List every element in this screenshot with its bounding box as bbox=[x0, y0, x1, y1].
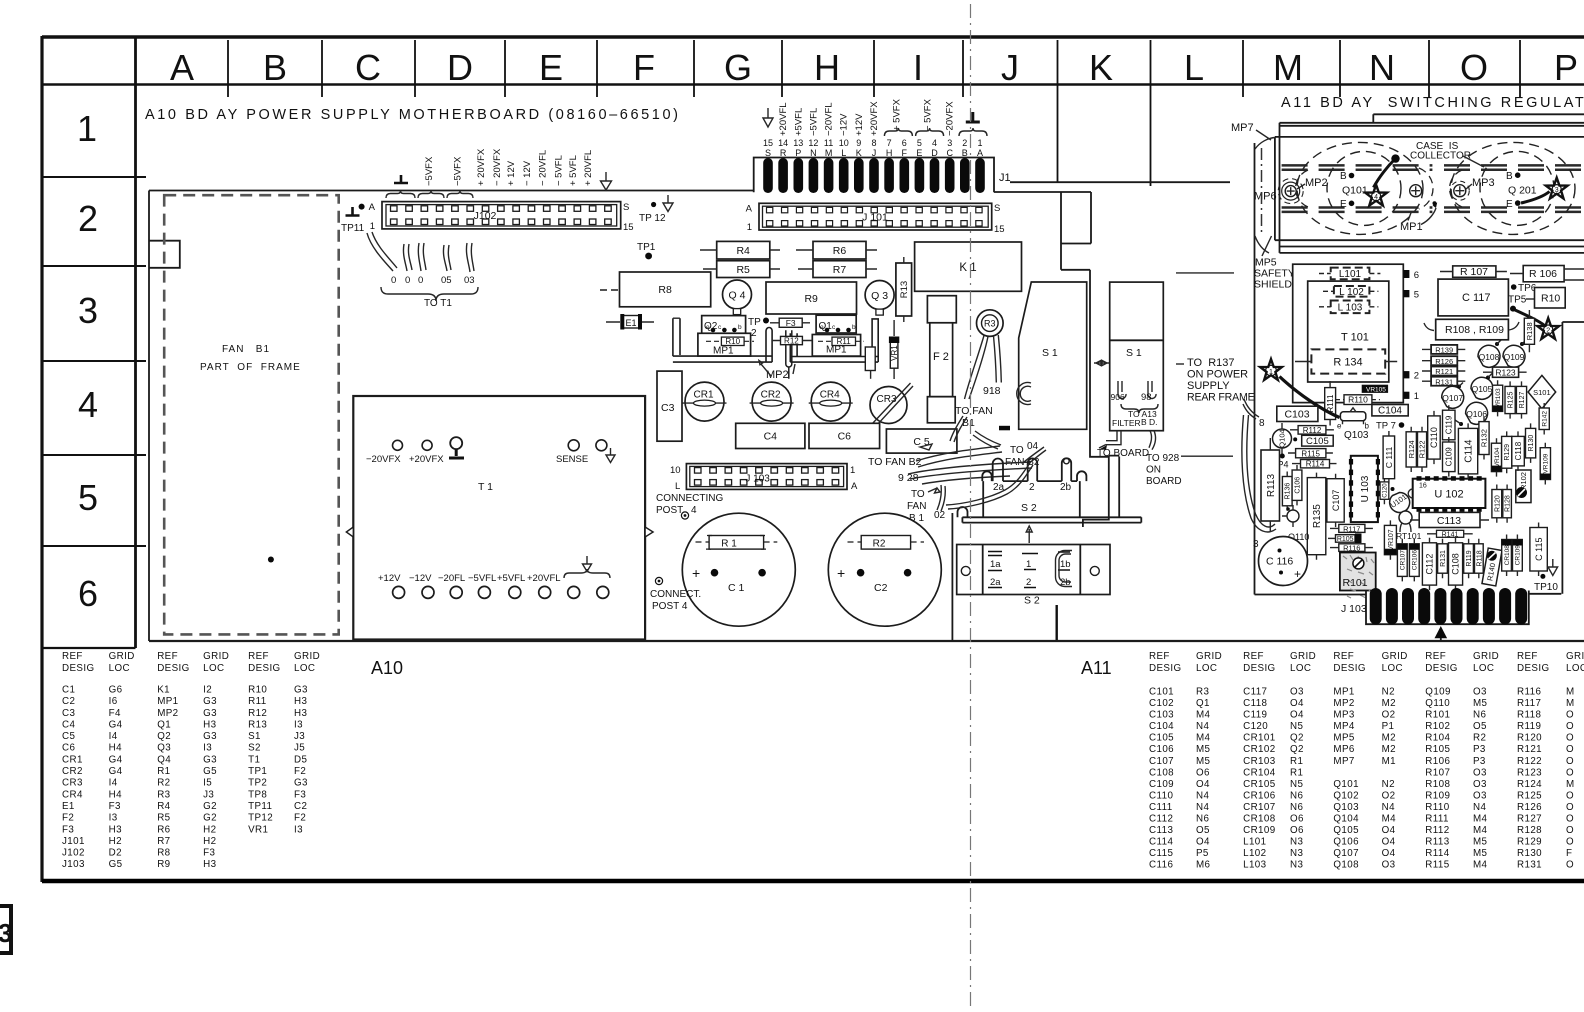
svg-text:GRID: GRID bbox=[203, 651, 229, 662]
label CONNECT POST 4 bbox=[650, 577, 701, 612]
svg-text:MP2: MP2 bbox=[1333, 698, 1354, 709]
svg-text:04: 04 bbox=[1027, 441, 1039, 452]
svg-text:O3: O3 bbox=[1473, 779, 1487, 790]
resistor R132 bbox=[1479, 417, 1489, 460]
svg-text:N4: N4 bbox=[1196, 802, 1209, 813]
R6 leads bbox=[796, 249, 877, 251]
connector J103 (A10) bbox=[670, 464, 858, 492]
wires: J102 to T1 traces bbox=[367, 232, 478, 309]
svg-text:e: e bbox=[706, 324, 710, 331]
svg-text:R123: R123 bbox=[1495, 368, 1516, 378]
svg-text:MP3: MP3 bbox=[1472, 177, 1495, 189]
svg-text:N3: N3 bbox=[1290, 848, 1303, 859]
svg-text:TP: TP bbox=[748, 317, 761, 328]
svg-text:J: J bbox=[872, 148, 877, 158]
resistor R114 bbox=[1292, 460, 1337, 469]
connector J101 bbox=[746, 203, 1005, 235]
resistor R135 bbox=[1307, 473, 1326, 560]
svg-text:Q107: Q107 bbox=[1333, 848, 1359, 859]
svg-text:R122: R122 bbox=[1418, 440, 1427, 458]
svg-text:R111: R111 bbox=[1326, 394, 1335, 412]
svg-text:O: O bbox=[1566, 837, 1574, 848]
svg-text:R9: R9 bbox=[804, 293, 818, 305]
svg-text:M5: M5 bbox=[1473, 848, 1488, 859]
svg-text:O3: O3 bbox=[1382, 860, 1396, 871]
svg-text:C104: C104 bbox=[1149, 721, 1174, 732]
inductor L101 bbox=[1319, 268, 1380, 280]
svg-text:2: 2 bbox=[1029, 482, 1035, 493]
svg-text:TP11: TP11 bbox=[248, 801, 272, 812]
svg-text:+20VFX: +20VFX bbox=[409, 454, 444, 465]
svg-text:R108 , R109: R108 , R109 bbox=[1445, 324, 1504, 336]
svg-text:Q105: Q105 bbox=[1333, 825, 1359, 836]
svg-text:Q 4: Q 4 bbox=[729, 290, 746, 302]
thermistor RT101 bbox=[1396, 511, 1422, 541]
resistor R120 bbox=[1492, 485, 1502, 523]
svg-text:A: A bbox=[170, 47, 194, 88]
svg-text:C104: C104 bbox=[1378, 406, 1402, 417]
resistor R4 bbox=[717, 241, 770, 259]
svg-text:R112: R112 bbox=[1303, 426, 1322, 435]
resistor R102 with screw bbox=[1516, 470, 1531, 503]
svg-text:14: 14 bbox=[778, 138, 788, 148]
svg-text:11: 11 bbox=[824, 138, 833, 148]
svg-text:LOC: LOC bbox=[1290, 663, 1311, 674]
svg-text:R128: R128 bbox=[1517, 825, 1542, 836]
wire pointer lines bbox=[1176, 273, 1234, 456]
svg-text:Q4: Q4 bbox=[157, 754, 171, 765]
capacitor C115 bbox=[1530, 523, 1547, 577]
svg-text:CONNECTING: CONNECTING bbox=[656, 493, 723, 504]
svg-text:S 2: S 2 bbox=[1021, 502, 1037, 514]
svg-text:H3: H3 bbox=[294, 696, 307, 707]
grid header letters bbox=[170, 47, 1578, 88]
test point TP11 bbox=[341, 204, 365, 234]
svg-text:02: 02 bbox=[934, 510, 946, 521]
svg-text:K 1: K 1 bbox=[959, 262, 976, 274]
svg-text:−20FL: −20FL bbox=[438, 573, 465, 584]
svg-text:S: S bbox=[765, 148, 771, 158]
svg-text:R3: R3 bbox=[984, 319, 996, 329]
svg-text:T 101: T 101 bbox=[1341, 332, 1369, 344]
svg-text:GRID: GRID bbox=[1566, 651, 1584, 662]
svg-text:I3: I3 bbox=[203, 743, 212, 754]
svg-text:5: 5 bbox=[78, 477, 98, 518]
svg-text:1b: 1b bbox=[1060, 559, 1071, 570]
svg-text:O: O bbox=[1566, 721, 1574, 732]
A11 board bottom edge bbox=[1255, 593, 1562, 596]
svg-text:+: + bbox=[692, 565, 700, 581]
capacitor C116 bbox=[1259, 537, 1308, 586]
svg-text:C120: C120 bbox=[1383, 483, 1389, 498]
svg-text:MP1: MP1 bbox=[157, 696, 178, 707]
svg-text:N4: N4 bbox=[1473, 802, 1486, 813]
svg-text:−20VFX: −20VFX bbox=[945, 101, 956, 136]
diode CR2 bbox=[750, 382, 794, 421]
svg-text:C 115: C 115 bbox=[1534, 538, 1544, 561]
svg-text:MP4: MP4 bbox=[1333, 721, 1354, 732]
svg-text:R2: R2 bbox=[873, 538, 886, 549]
svg-text:Q101: Q101 bbox=[1333, 779, 1359, 790]
svg-text:Q104: Q104 bbox=[1333, 814, 1359, 825]
svg-text:C6: C6 bbox=[62, 743, 75, 754]
transistor Q109 bbox=[1503, 345, 1525, 367]
svg-text:1: 1 bbox=[977, 138, 982, 148]
svg-text:Q101: Q101 bbox=[1342, 185, 1368, 197]
svg-text:M: M bbox=[825, 148, 833, 158]
transistor Q110 bbox=[1282, 505, 1309, 542]
svg-text:G2: G2 bbox=[203, 801, 217, 812]
svg-text:H: H bbox=[886, 148, 893, 158]
svg-text:F3: F3 bbox=[294, 789, 306, 800]
svg-text:CR2: CR2 bbox=[761, 390, 781, 401]
svg-text:N4: N4 bbox=[1382, 802, 1395, 813]
svg-text:1: 1 bbox=[747, 222, 752, 233]
varistor VR107 bbox=[1384, 520, 1396, 559]
transistor Q201 (TO-3 dashed outline) bbox=[1450, 142, 1575, 234]
svg-text:C114: C114 bbox=[1149, 837, 1173, 848]
svg-text:CR109: CR109 bbox=[1243, 825, 1276, 836]
svg-text:0: 0 bbox=[391, 275, 396, 286]
svg-text:A: A bbox=[746, 204, 753, 215]
svg-text:R6: R6 bbox=[157, 824, 170, 835]
svg-text:REF: REF bbox=[1243, 651, 1264, 662]
relay K1 bbox=[915, 242, 1022, 291]
switch S101 (diamond) bbox=[1528, 375, 1556, 414]
label 928 bbox=[898, 472, 919, 484]
svg-text:MP6: MP6 bbox=[1254, 191, 1277, 203]
svg-text:R 1: R 1 bbox=[721, 538, 737, 549]
svg-text:C112: C112 bbox=[1149, 814, 1173, 825]
svg-text:K1: K1 bbox=[157, 685, 170, 696]
svg-text:S: S bbox=[623, 202, 629, 213]
svg-text:N6: N6 bbox=[1290, 790, 1303, 801]
svg-text:G3: G3 bbox=[294, 778, 308, 789]
svg-text:O4: O4 bbox=[1382, 837, 1396, 848]
ground symbol at J1 pins 2-1 bbox=[966, 112, 980, 122]
svg-text:+ 20VFL: + 20VFL bbox=[583, 150, 594, 186]
transistor Q4 bbox=[723, 280, 752, 315]
svg-text:M4: M4 bbox=[1473, 860, 1488, 871]
transformer T1 bbox=[346, 396, 653, 640]
svg-text:− 5VFL: − 5VFL bbox=[554, 155, 565, 186]
svg-text:VR1: VR1 bbox=[248, 824, 268, 835]
wires: fan harness curves bbox=[908, 416, 1032, 484]
title A11 board bbox=[1281, 95, 1584, 111]
wire hairpin to label 3 bbox=[1242, 415, 1276, 550]
svg-text:Q108: Q108 bbox=[1333, 860, 1359, 871]
svg-text:GRID: GRID bbox=[294, 651, 320, 662]
transistor Q2 bbox=[702, 316, 746, 334]
capacitor C103 bbox=[1277, 406, 1318, 421]
svg-text:1: 1 bbox=[1269, 367, 1273, 376]
svg-text:R113: R113 bbox=[1425, 837, 1449, 848]
transistor U101 bbox=[1389, 487, 1410, 512]
wire: page fold line bbox=[970, 4, 972, 1008]
svg-text:VR105: VR105 bbox=[1366, 387, 1386, 394]
svg-text:CR103: CR103 bbox=[1243, 756, 1276, 767]
svg-text:A11 BD AY SWITCHING REGULAT: A11 BD AY SWITCHING REGULAT bbox=[1281, 95, 1584, 111]
svg-text:U 102: U 102 bbox=[1434, 489, 1463, 501]
svg-text:LOC: LOC bbox=[203, 663, 224, 674]
heatsink dash-dot rails bbox=[1282, 165, 1584, 212]
svg-text:H4: H4 bbox=[109, 743, 122, 754]
resistor R9 bbox=[766, 282, 857, 314]
svg-text:K: K bbox=[856, 148, 862, 158]
svg-text:906: 906 bbox=[1111, 392, 1125, 402]
svg-text:3: 3 bbox=[1253, 539, 1259, 550]
test point TP5 with star 2 bbox=[1508, 295, 1559, 339]
wire tick below S2 bbox=[1055, 605, 1057, 640]
svg-text:C115: C115 bbox=[1149, 848, 1173, 859]
svg-text:C109: C109 bbox=[1149, 779, 1174, 790]
connector J102 bbox=[369, 202, 634, 233]
svg-text:R5: R5 bbox=[736, 264, 750, 276]
svg-text:N6: N6 bbox=[1196, 814, 1209, 825]
svg-text:L103: L103 bbox=[1243, 860, 1267, 871]
label TO R137 ON POWER SUPPLY REAR FRAME bbox=[1176, 357, 1255, 404]
svg-text:4: 4 bbox=[1374, 194, 1378, 201]
svg-text:G4: G4 bbox=[109, 719, 123, 730]
capacitor C109 bbox=[1443, 437, 1456, 477]
svg-text:6: 6 bbox=[78, 573, 98, 614]
svg-text:E: E bbox=[916, 148, 922, 158]
svg-text:O3: O3 bbox=[1290, 687, 1304, 698]
svg-text:12: 12 bbox=[808, 138, 818, 148]
svg-text:− 20VFL: − 20VFL bbox=[538, 150, 549, 186]
svg-text:J3: J3 bbox=[294, 731, 305, 742]
svg-text:R107: R107 bbox=[1425, 767, 1450, 778]
svg-text:R117: R117 bbox=[1343, 524, 1360, 533]
test point TP2 bbox=[748, 317, 769, 339]
svg-text:R125: R125 bbox=[1508, 392, 1515, 409]
switch S1 (left) bbox=[999, 282, 1087, 430]
safety shield MP5 left profile bbox=[1255, 138, 1276, 595]
svg-text:M4: M4 bbox=[1382, 814, 1397, 825]
svg-text:13: 13 bbox=[793, 138, 803, 148]
svg-text:I4: I4 bbox=[109, 778, 118, 789]
svg-text:FAN B1: FAN B1 bbox=[222, 344, 270, 355]
title A10 board bbox=[145, 107, 681, 123]
svg-text:C 116: C 116 bbox=[1266, 556, 1293, 568]
resistor R115 bbox=[1288, 449, 1333, 459]
svg-text:CONNECT.: CONNECT. bbox=[650, 589, 701, 600]
svg-text:LOC: LOC bbox=[294, 663, 315, 674]
svg-text:N5: N5 bbox=[1290, 779, 1303, 790]
svg-text:TP 7: TP 7 bbox=[1376, 421, 1396, 432]
svg-text:C4: C4 bbox=[62, 719, 75, 730]
svg-text:C112: C112 bbox=[1425, 554, 1435, 575]
svg-text:L: L bbox=[675, 481, 680, 492]
resistor R142 bbox=[1539, 403, 1549, 435]
svg-text:R119: R119 bbox=[1517, 721, 1541, 732]
svg-text:VR104: VR104 bbox=[1494, 447, 1501, 467]
capacitor C113 bbox=[1410, 512, 1489, 527]
svg-text:1: 1 bbox=[1414, 391, 1419, 402]
svg-text:A10: A10 bbox=[371, 658, 403, 678]
IC U102 (DIP) bbox=[1408, 476, 1485, 512]
svg-text:L101: L101 bbox=[1243, 837, 1266, 848]
svg-text:R 134: R 134 bbox=[1333, 357, 1362, 369]
A11 parts table bbox=[1081, 651, 1584, 871]
svg-text:C3: C3 bbox=[661, 402, 675, 414]
svg-text:L: L bbox=[841, 148, 846, 158]
svg-text:+20VFL: +20VFL bbox=[527, 573, 561, 584]
svg-text:−20VFX: −20VFX bbox=[366, 454, 401, 465]
ground arrow right of J102 labels bbox=[601, 172, 612, 190]
potentiometer R101 bbox=[1340, 553, 1376, 599]
svg-text:R5: R5 bbox=[157, 813, 170, 824]
capacitor C114 bbox=[1458, 423, 1477, 479]
svg-text:REF: REF bbox=[62, 651, 83, 662]
svg-text:3: 3 bbox=[0, 918, 12, 948]
svg-text:O3: O3 bbox=[1473, 687, 1487, 698]
svg-text:2: 2 bbox=[78, 198, 98, 239]
svg-text:MP7: MP7 bbox=[1231, 122, 1254, 134]
diode CR106 bbox=[1409, 539, 1419, 582]
svg-text:Q1: Q1 bbox=[1196, 698, 1210, 709]
svg-text:R8: R8 bbox=[658, 284, 672, 296]
svg-text:3: 3 bbox=[1555, 187, 1559, 194]
svg-text:O4: O4 bbox=[1196, 779, 1210, 790]
svg-text:DESIG: DESIG bbox=[1149, 663, 1182, 674]
svg-text:E1: E1 bbox=[62, 801, 75, 812]
svg-text:F3: F3 bbox=[109, 801, 121, 812]
varistor VR104 bbox=[1491, 438, 1501, 476]
svg-text:A: A bbox=[977, 148, 983, 158]
svg-text:1: 1 bbox=[370, 221, 375, 232]
resistor R125 bbox=[1505, 381, 1515, 418]
svg-text:R127: R127 bbox=[1517, 814, 1542, 825]
resistor R138 bbox=[1524, 310, 1534, 352]
svg-text:R1: R1 bbox=[157, 766, 170, 777]
capacitor C111 bbox=[1383, 431, 1395, 484]
svg-text:H2: H2 bbox=[109, 836, 122, 847]
bracket MP2 (left channel) bbox=[673, 318, 772, 362]
resistor R7 bbox=[813, 261, 866, 278]
svg-text:P5: P5 bbox=[1196, 848, 1209, 859]
svg-text:MP7: MP7 bbox=[1333, 756, 1354, 767]
svg-text:E: E bbox=[1506, 199, 1513, 210]
svg-text:R12: R12 bbox=[784, 337, 799, 346]
svg-text:918: 918 bbox=[983, 385, 1001, 397]
svg-text:C107: C107 bbox=[1331, 490, 1341, 512]
svg-text:R114: R114 bbox=[1425, 848, 1449, 859]
capacitor C2 with resistor R2 bbox=[828, 513, 941, 626]
svg-text:P3: P3 bbox=[1473, 756, 1486, 767]
svg-text:O4: O4 bbox=[1382, 848, 1396, 859]
svg-text:LOC: LOC bbox=[1196, 663, 1217, 674]
svg-text:J102: J102 bbox=[62, 848, 85, 859]
capacitor C105 bbox=[1302, 435, 1334, 447]
svg-text:0: 0 bbox=[405, 275, 410, 286]
resistor R105 bbox=[1328, 534, 1362, 544]
svg-text:CR4: CR4 bbox=[820, 390, 840, 401]
svg-text:B: B bbox=[962, 148, 968, 158]
svg-text:B D.: B D. bbox=[1141, 417, 1158, 427]
svg-text:MP1: MP1 bbox=[826, 345, 847, 356]
svg-text:R: R bbox=[780, 148, 787, 158]
resistor R3 (disc with leads) bbox=[965, 310, 1004, 399]
label 02 bbox=[934, 510, 946, 521]
svg-text:C108: C108 bbox=[1451, 553, 1461, 575]
svg-text:1: 1 bbox=[77, 108, 97, 149]
svg-text:CR106: CR106 bbox=[1243, 790, 1276, 801]
T1 bottom terminals bbox=[378, 556, 610, 598]
svg-text:C103: C103 bbox=[1284, 409, 1309, 421]
svg-text:Q1: Q1 bbox=[157, 719, 171, 730]
svg-text:C 111: C 111 bbox=[1384, 446, 1394, 468]
svg-text:R4: R4 bbox=[157, 801, 170, 812]
svg-text:4: 4 bbox=[78, 384, 98, 425]
block pins 6,5,2,1 bbox=[1403, 270, 1419, 402]
svg-text:R1: R1 bbox=[1290, 756, 1303, 767]
svg-text:C103: C103 bbox=[1149, 710, 1174, 721]
svg-text:GRID: GRID bbox=[1196, 651, 1222, 662]
A10 parts table bbox=[62, 651, 403, 870]
svg-text:N5: N5 bbox=[1290, 721, 1303, 732]
svg-text:R123: R123 bbox=[1517, 767, 1542, 778]
IC U103 (DIP) bbox=[1349, 456, 1380, 522]
star 3 at Q201 bbox=[1521, 178, 1568, 203]
svg-text:MP1: MP1 bbox=[1333, 687, 1354, 698]
svg-text:N3: N3 bbox=[1290, 837, 1303, 848]
fuse F3 bbox=[770, 318, 810, 328]
resistor R12 bbox=[772, 336, 812, 345]
switch S2 (upper bracket) bbox=[958, 456, 1142, 523]
svg-text:M: M bbox=[1566, 687, 1575, 698]
svg-text:L: L bbox=[1184, 47, 1204, 88]
svg-text:M2: M2 bbox=[1382, 733, 1396, 744]
svg-text:GRID: GRID bbox=[1382, 651, 1408, 662]
svg-text:M4: M4 bbox=[1196, 733, 1211, 744]
svg-text:O6: O6 bbox=[1290, 814, 1304, 825]
svg-text:M4: M4 bbox=[1473, 825, 1488, 836]
svg-text:C118: C118 bbox=[1514, 441, 1523, 460]
label MP7 bbox=[1231, 122, 1271, 140]
resistor R127 bbox=[1516, 381, 1526, 418]
svg-text:ON POWER: ON POWER bbox=[1187, 369, 1248, 381]
svg-text:I4: I4 bbox=[109, 731, 118, 742]
svg-text:COLLECTOR: COLLECTOR bbox=[1410, 151, 1471, 162]
svg-text:N2: N2 bbox=[1382, 687, 1395, 698]
svg-text:R124: R124 bbox=[1517, 779, 1542, 790]
svg-text:LOC: LOC bbox=[1382, 663, 1403, 674]
svg-text:O5: O5 bbox=[1196, 825, 1210, 836]
svg-text:G3: G3 bbox=[203, 696, 217, 707]
svg-text:0: 0 bbox=[418, 275, 423, 286]
resistor R136 bbox=[1282, 472, 1292, 511]
resistor R108,R109 box bbox=[1424, 319, 1519, 340]
inductor L102 bbox=[1323, 286, 1378, 298]
svg-text:G5: G5 bbox=[203, 766, 217, 777]
svg-text:S: S bbox=[994, 203, 1000, 214]
resistor R124 bbox=[1406, 427, 1416, 472]
svg-text:+5VFL: +5VFL bbox=[793, 108, 804, 136]
ground symbol at J1 pin 15 bbox=[763, 108, 773, 127]
svg-text:e: e bbox=[1337, 422, 1342, 431]
svg-text:C107: C107 bbox=[1149, 756, 1174, 767]
svg-text:M: M bbox=[1566, 698, 1575, 709]
svg-text:O2: O2 bbox=[1382, 710, 1396, 721]
diode CR1 bbox=[683, 382, 727, 421]
svg-text:G4: G4 bbox=[109, 754, 123, 765]
resistor R128 bbox=[1503, 485, 1512, 523]
resistor R141 bbox=[1427, 530, 1473, 538]
A10 board outline top edge bbox=[149, 191, 1091, 193]
svg-text:N3: N3 bbox=[1290, 860, 1303, 871]
resistor R111 bbox=[1325, 381, 1336, 426]
